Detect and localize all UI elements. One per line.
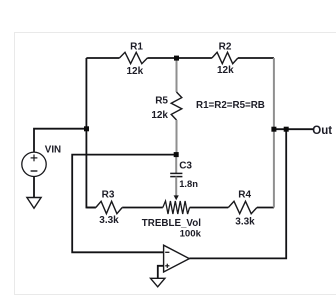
wire opamp + input to ground — [158, 266, 164, 279]
junction node B — [174, 152, 179, 157]
svg-text:12k: 12k — [126, 66, 143, 77]
svg-text:VIN: VIN — [45, 144, 61, 155]
svg-text:3.3k: 3.3k — [235, 216, 255, 227]
svg-text:R1: R1 — [130, 42, 143, 53]
svg-text:TREBLE_Vol: TREBLE_Vol — [142, 218, 201, 229]
svg-text:100k: 100k — [180, 229, 202, 240]
wire y=155 feedback from corner to node B — [72, 155, 176, 253]
resistor R3 — [96, 190, 122, 227]
ground (VIN) — [27, 198, 41, 209]
wire node B to C3 (gray) — [175, 155, 177, 173]
wire node A to R2 — [177, 57, 212, 59]
svg-text:3.3k: 3.3k — [99, 215, 119, 226]
ground (op-amp) — [151, 278, 165, 287]
op-amp U1 — [164, 245, 190, 272]
svg-text:R3: R3 — [102, 190, 115, 201]
svg-text:12k: 12k — [151, 110, 168, 121]
resistor R4 — [228, 190, 257, 228]
svg-text:C3: C3 — [179, 161, 192, 172]
junction Out-right — [284, 127, 289, 132]
wire C3 to wiper arrow (gray) — [175, 177, 177, 196]
junction Out-left — [271, 127, 276, 132]
wire R4 to right corner — [257, 207, 274, 209]
capacitor C3 — [170, 161, 198, 190]
wire left vertical from top corner down to R3 corner — [86, 58, 95, 208]
svg-text:1.8n: 1.8n — [179, 178, 198, 189]
svg-text:R2: R2 — [219, 42, 232, 53]
wire VIN to junction — [34, 129, 86, 152]
junction node A — [174, 56, 179, 61]
svg-text:R1=R2=R5=RB: R1=R2=R5=RB — [196, 100, 265, 111]
wire top from left corner to R1 — [86, 57, 119, 59]
wire R5 to node B (gray) — [176, 120, 178, 155]
potentiometer TREBLE_Vol — [142, 201, 202, 240]
resistor R5 — [151, 92, 181, 121]
resistor R1 — [119, 42, 147, 78]
wire out horizontal — [274, 128, 314, 130]
junction VIN node — [84, 126, 89, 131]
svg-text:12k: 12k — [217, 65, 234, 76]
wire R3 corner lead — [86, 207, 95, 209]
wire VIN to ground — [33, 177, 35, 198]
wire R1 to node A — [147, 57, 176, 59]
wire pot to R4 — [190, 207, 229, 209]
wire node A down to R5 (gray) — [176, 58, 178, 92]
wire R3 to pot — [122, 207, 163, 209]
wire right vertical down to opamp output — [189, 129, 286, 258]
svg-text:R5: R5 — [155, 96, 168, 107]
svg-text:R4: R4 — [238, 190, 251, 201]
wire R2 to right corner — [238, 57, 274, 59]
voltage source VIN — [22, 144, 61, 176]
svg-text:Out: Out — [312, 125, 332, 137]
wiper arrow of potentiometer — [174, 195, 179, 200]
wire right vertical R2 to R4 (gray) — [273, 58, 275, 208]
resistor R2 — [212, 42, 238, 77]
